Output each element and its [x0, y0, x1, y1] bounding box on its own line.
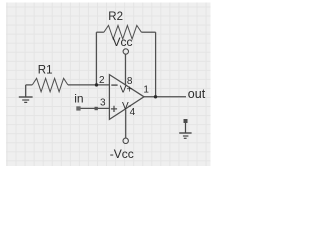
schematic canvas: [6, 3, 211, 167]
resistor R2: [104, 25, 141, 39]
wire node square on pin 3: [95, 107, 98, 110]
wire R2 to right vertical: [141, 31, 155, 33]
wire feedback right vertical: [155, 32, 157, 97]
svg-text:3: 3: [100, 97, 106, 108]
op-amp plus input mark: [111, 106, 117, 112]
svg-text:V-: V-: [122, 101, 131, 112]
wire ground to R1: [26, 84, 33, 86]
op-amp U1 triangle: [109, 75, 144, 120]
in port pad: [76, 106, 80, 110]
ground (right): [179, 123, 191, 138]
wire output: [144, 96, 186, 98]
svg-text:R2: R2: [108, 11, 123, 23]
wire in pad to pin 3: [81, 107, 110, 109]
op-amp minus input mark: [111, 84, 117, 86]
svg-text:out: out: [188, 87, 206, 101]
Vcc terminal circle: [123, 49, 128, 54]
junction dot node 2: [95, 83, 98, 86]
Vcc supply stem: [125, 54, 127, 85]
svg-text:V+: V+: [120, 84, 133, 95]
ground (left): [19, 85, 33, 103]
wire feedback left vertical: [95, 32, 97, 85]
svg-text:R1: R1: [38, 64, 53, 76]
wire to R2: [96, 31, 104, 33]
-Vcc supply stem: [125, 110, 127, 139]
svg-text:-Vcc: -Vcc: [110, 147, 134, 161]
svg-text:2: 2: [99, 75, 105, 86]
-Vcc terminal circle: [123, 138, 128, 143]
junction dot output node: [154, 95, 157, 98]
wire R1 to op-amp pin 2: [68, 84, 110, 86]
resistor R1: [32, 78, 68, 92]
svg-text:1: 1: [143, 84, 149, 95]
svg-text:in: in: [74, 92, 83, 106]
svg-text:Vcc: Vcc: [113, 35, 133, 49]
ground (right) pad: [184, 119, 188, 123]
